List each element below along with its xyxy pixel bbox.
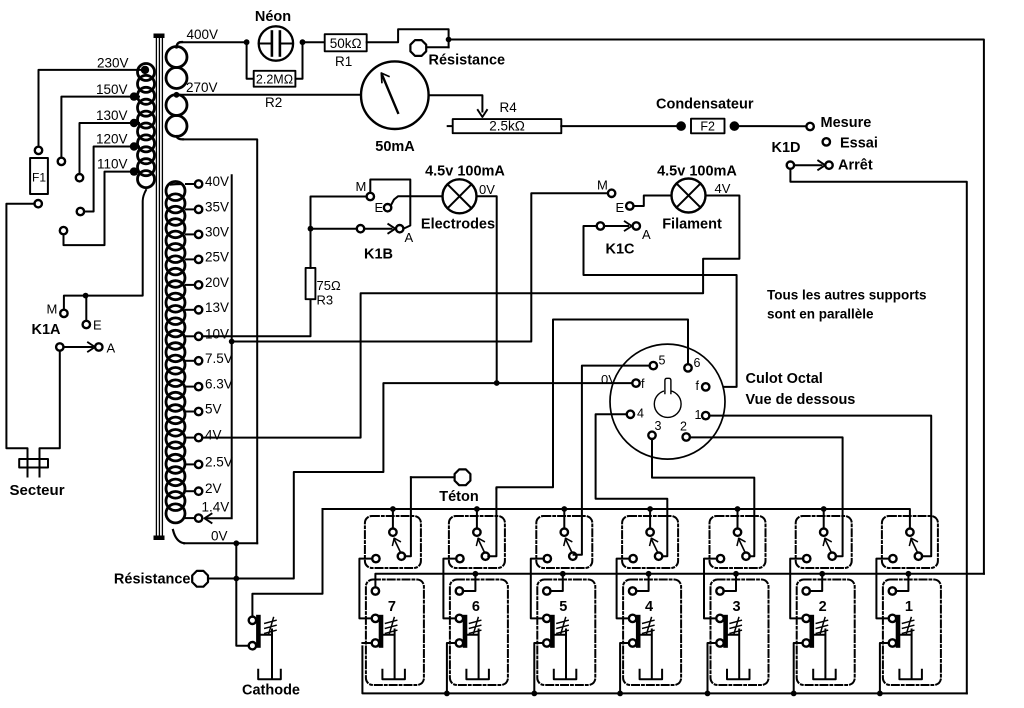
svg-text:40V: 40V: [205, 174, 229, 189]
socket switch box 5 (upper): [531, 366, 650, 619]
node secondary tap 10V: [186, 335, 195, 337]
svg-text:75Ω: 75Ω: [317, 278, 341, 293]
wire K1D common down right side to bottom bus: [790, 169, 966, 694]
svg-text:E: E: [93, 318, 102, 333]
contact K1A A: [95, 343, 102, 350]
tube element box 7 (lower): [362, 580, 424, 686]
svg-text:Mesure: Mesure: [821, 115, 872, 131]
wire bus A (cathode rail): [323, 509, 910, 529]
contact K1A common: [56, 343, 63, 350]
svg-text:Filament: Filament: [662, 217, 722, 233]
svg-text:Secteur: Secteur: [10, 482, 65, 499]
contact K1C E: [626, 202, 633, 209]
contact K1C A: [633, 222, 640, 229]
transformer HV winding 400V/270V: [166, 42, 187, 139]
wire 0V to cathode bottom: [236, 543, 249, 646]
wire 120V to contact: [84, 147, 134, 212]
node secondary tap 2.5V: [186, 463, 195, 465]
svg-text:K1A: K1A: [32, 322, 62, 338]
svg-text:4.5v 100mA: 4.5v 100mA: [425, 164, 505, 180]
resistor R3 75Ω: [306, 268, 316, 299]
terminal Résistance (top): [410, 40, 426, 56]
terminal Téton: [455, 469, 471, 485]
contact K1B common: [357, 225, 364, 232]
svg-text:20V: 20V: [205, 275, 229, 290]
tube element box 1 (lower): [877, 571, 941, 696]
octal pin 3: [648, 432, 655, 439]
wire primary-bottom to K1A M/E: [64, 190, 146, 309]
svg-text:2.2MΩ: 2.2MΩ: [256, 73, 293, 87]
svg-text:M: M: [597, 178, 608, 193]
tube element box 5 (lower): [531, 571, 595, 696]
svg-text:K1D: K1D: [772, 140, 801, 156]
svg-text:0V: 0V: [479, 182, 495, 197]
svg-text:2.5V: 2.5V: [205, 454, 233, 469]
contact K1B E: [384, 204, 391, 211]
svg-text:R3: R3: [317, 293, 334, 308]
octal pin 5: [650, 362, 657, 369]
tube element box 2 (lower): [791, 571, 855, 696]
svg-text:120V: 120V: [96, 132, 128, 147]
fuse F1: [30, 158, 48, 194]
octal pin f right: [702, 383, 709, 390]
svg-text:Condensateur: Condensateur: [656, 97, 754, 113]
wire R3 to K1B: [311, 197, 367, 268]
svg-text:2: 2: [680, 420, 687, 434]
octal socket outline (Culot Octal): [610, 344, 725, 459]
wire bus-A left end to cathode top: [252, 509, 322, 617]
svg-text:25V: 25V: [205, 249, 229, 264]
svg-text:5: 5: [659, 354, 666, 368]
transformer T1 core: [154, 34, 165, 541]
contact K1D Arrêt: [825, 162, 832, 169]
node 130V tap: [130, 119, 138, 127]
svg-text:1: 1: [695, 408, 702, 422]
socket switch box 4 (upper): [596, 414, 679, 618]
svg-text:5V: 5V: [205, 402, 222, 417]
socket switch box 1 (upper): [709, 416, 938, 619]
wire 110V to contact: [64, 172, 135, 246]
node secondary tap 4V: [186, 437, 195, 439]
svg-text:10V: 10V: [205, 326, 229, 341]
svg-text:f: f: [696, 379, 700, 393]
resistor R2 2.2MΩ: [247, 42, 254, 78]
node secondary tap 40V: [186, 183, 195, 185]
wire pin f-left to Résistance terminal: [208, 383, 633, 578]
svg-text:6: 6: [472, 599, 480, 615]
contact 130V: [76, 174, 83, 181]
svg-text:Vue de dessous: Vue de dessous: [746, 392, 856, 408]
node secondary tap 7.5V: [186, 360, 195, 362]
contact K1D Mesure: [806, 123, 813, 130]
svg-text:4.5v 100mA: 4.5v 100mA: [657, 164, 737, 180]
svg-text:2.5kΩ: 2.5kΩ: [489, 119, 525, 134]
socket switch box 7 (upper): [359, 477, 421, 618]
svg-text:F2: F2: [700, 119, 715, 133]
wire K1A common to plug: [40, 351, 60, 452]
wire K1D wiper arrow: [794, 164, 822, 166]
svg-text:Electrodes: Electrodes: [421, 217, 495, 233]
wire 10V tap to R3: [202, 299, 310, 336]
svg-text:150V: 150V: [96, 82, 128, 97]
wire 130V to contact: [80, 123, 135, 174]
wire 0V bottom lead: [184, 542, 257, 544]
wire HV winding bottom to 0V (right of core): [183, 139, 257, 543]
contact K1A E: [83, 321, 90, 328]
resistor R1 50kΩ: [303, 41, 325, 43]
wire meter to R4: [429, 95, 483, 111]
octal pin f left (0V): [632, 379, 639, 386]
svg-text:0V: 0V: [601, 372, 617, 387]
wire top rail to right edge: [449, 40, 984, 574]
mains plug Secteur: [19, 451, 48, 477]
svg-text:f: f: [641, 377, 645, 391]
node secondary tap 6.3V: [186, 386, 195, 388]
node secondary tap 25V: [186, 258, 195, 260]
contact K1D Essai: [823, 138, 830, 145]
svg-text:Arrêt: Arrêt: [838, 158, 873, 174]
node secondary tap 5V: [186, 411, 195, 413]
octal pin 4: [627, 411, 634, 418]
node 120V tap: [130, 142, 138, 150]
wire K1B wiper arrow: [364, 228, 391, 230]
svg-text:50mA: 50mA: [375, 139, 415, 155]
svg-text:4V: 4V: [205, 428, 222, 443]
svg-text:A: A: [642, 227, 651, 242]
svg-text:A: A: [405, 230, 414, 245]
wire bus C (bottom bus): [362, 646, 966, 693]
contact K1D common: [787, 162, 794, 169]
socket switch box 2 (upper): [690, 437, 852, 618]
node 110V tap: [130, 167, 138, 175]
svg-text:1.4V: 1.4V: [202, 499, 230, 514]
svg-text:E: E: [375, 200, 384, 215]
wire K1C common to octal pin f right: [584, 226, 737, 387]
node secondary tap 30V: [186, 233, 195, 235]
svg-text:Résistance: Résistance: [114, 572, 191, 588]
wire 1.4V selector line with arrow: [207, 175, 232, 518]
contact 120V: [77, 208, 84, 215]
svg-text:50kΩ: 50kΩ: [330, 36, 362, 51]
contact K1B A: [396, 225, 403, 232]
transformer primary winding: [138, 64, 155, 188]
wire K1B M loop to A: [370, 180, 410, 229]
socket switch box 3 (upper): [652, 439, 766, 619]
svg-text:R1: R1: [335, 54, 352, 69]
svg-text:Essai: Essai: [840, 136, 878, 152]
svg-text:Tous les autres supports: Tous les autres supports: [767, 288, 927, 303]
wire 1.4V bus to K1C M: [232, 193, 608, 341]
cathode electrode symbol: [249, 615, 281, 679]
svg-text:13V: 13V: [205, 300, 229, 315]
svg-text:6.3V: 6.3V: [205, 377, 233, 392]
socket switch box 6 (upper): [443, 489, 505, 619]
terminal Résistance (bottom): [192, 571, 208, 587]
svg-text:K1C: K1C: [606, 242, 636, 258]
svg-text:A: A: [107, 341, 116, 356]
svg-text:R2: R2: [265, 95, 282, 110]
svg-text:E: E: [616, 200, 625, 215]
svg-text:R4: R4: [500, 100, 518, 115]
svg-text:M: M: [356, 179, 367, 194]
svg-text:Téton: Téton: [439, 489, 478, 505]
wire F2 to K1D: [734, 125, 806, 127]
node secondary tap 2V: [186, 490, 195, 492]
wire R4 to F2: [561, 125, 681, 127]
node secondary tap 20V: [186, 284, 195, 286]
svg-text:5: 5: [559, 599, 567, 615]
node 230V tap: [141, 66, 149, 74]
svg-text:4V: 4V: [715, 181, 731, 196]
svg-text:M: M: [47, 302, 58, 317]
svg-text:Cathode: Cathode: [242, 683, 300, 699]
svg-text:Néon: Néon: [255, 9, 291, 25]
octal pin 2: [683, 433, 690, 440]
contact K1C M: [608, 190, 615, 197]
contact K1A M: [60, 310, 67, 317]
node secondary tap 1.4V: [186, 517, 195, 519]
svg-text:7: 7: [388, 599, 396, 615]
svg-text:35V: 35V: [205, 199, 229, 214]
svg-text:3: 3: [655, 419, 662, 433]
contact K1C common: [597, 222, 604, 229]
wire Téton to column7: [411, 476, 454, 478]
tube element box 4 (lower): [617, 571, 681, 696]
wire Electrodes 0V lead down: [477, 196, 497, 383]
svg-text:3: 3: [732, 599, 740, 615]
svg-text:7.5V: 7.5V: [205, 351, 233, 366]
wire 150V to contact: [61, 97, 134, 158]
wire K1A wiper arrow: [63, 346, 92, 348]
node secondary tap 13V: [186, 309, 195, 311]
svg-text:1: 1: [905, 599, 913, 615]
meter 50mA: [361, 61, 429, 129]
octal pin 1: [702, 412, 709, 419]
svg-text:4: 4: [637, 407, 644, 421]
svg-text:Culot Octal: Culot Octal: [746, 371, 823, 387]
node secondary tap 35V: [186, 208, 195, 210]
svg-text:sont en parallèle: sont en parallèle: [767, 307, 874, 322]
wire bus B (top of lower boxes): [375, 574, 984, 588]
wire K1C wiper arrow: [604, 225, 628, 227]
wire K1B E to lamp: [391, 196, 443, 205]
svg-text:130V: 130V: [96, 108, 128, 123]
node 150V tap: [130, 92, 138, 100]
svg-text:400V: 400V: [187, 27, 219, 42]
contact 150V: [58, 158, 65, 165]
contact 110V: [60, 227, 67, 234]
svg-text:110V: 110V: [97, 157, 128, 172]
wire pin 6 riser: [496, 320, 688, 489]
wire F1 to left rail: [6, 204, 34, 452]
svg-text:2: 2: [819, 599, 827, 615]
wire 230V to F1: [39, 70, 146, 146]
tube element box 3 (lower): [705, 571, 769, 696]
svg-text:230V: 230V: [97, 56, 129, 71]
svg-text:4: 4: [645, 599, 653, 615]
wire 4V tap to Filament lamp: [202, 196, 739, 438]
transformer secondary winding: [166, 182, 185, 523]
svg-text:6: 6: [694, 356, 701, 370]
svg-text:F1: F1: [32, 171, 46, 185]
svg-text:2V: 2V: [205, 481, 222, 496]
octal key: [654, 391, 681, 418]
wire R1 jog over Résistance: [367, 29, 449, 47]
svg-text:270V: 270V: [186, 80, 218, 95]
tube element box 6 (lower): [444, 571, 508, 696]
svg-text:0V: 0V: [211, 529, 228, 544]
octal pin 6: [684, 364, 691, 371]
svg-text:Résistance: Résistance: [429, 53, 506, 69]
svg-text:30V: 30V: [205, 224, 229, 239]
wire K1C E to lamp: [633, 196, 671, 207]
contact K1B M: [367, 193, 374, 200]
svg-text:K1B: K1B: [364, 247, 393, 263]
